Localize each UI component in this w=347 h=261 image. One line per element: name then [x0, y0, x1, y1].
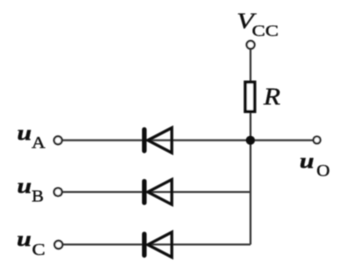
wire: row B from input terminal through D2 to vertical bus	[62, 191, 251, 193]
svg-text:R: R	[263, 83, 281, 110]
wire: resistor bottom to node	[250, 112, 252, 140]
svg-text:C: C	[32, 240, 45, 258]
node: common cathode junction	[246, 136, 255, 145]
terminal output	[313, 137, 320, 144]
diode D3 cathode bar	[142, 232, 147, 258]
svg-text:u: u	[17, 174, 32, 198]
diode D2 triangle	[148, 180, 172, 205]
svg-text:A: A	[32, 133, 46, 152]
terminal input C	[55, 241, 63, 249]
wire: Vcc lead from terminal to resistor top	[250, 48, 252, 81]
wire: vertical bus from node down to row C	[250, 140, 252, 245]
svg-text:u: u	[17, 121, 32, 145]
svg-text:u: u	[17, 227, 32, 251]
resistor R	[245, 82, 254, 111]
svg-text:B: B	[32, 187, 44, 205]
diode D1 cathode bar	[142, 127, 147, 153]
terminal input B	[54, 188, 62, 196]
diode D2 cathode bar	[142, 179, 147, 205]
terminal input A	[54, 136, 62, 144]
diode D3 triangle	[148, 232, 172, 257]
wire: row C from input terminal through D3 to vertical bus	[63, 244, 251, 246]
terminal Vcc	[247, 41, 255, 49]
wire: row A from input terminal through D1 to node and output terminal	[62, 139, 313, 141]
diode D1 triangle	[148, 128, 172, 153]
svg-text:CC: CC	[252, 22, 279, 40]
svg-text:u: u	[300, 149, 315, 173]
svg-text:O: O	[317, 161, 330, 180]
